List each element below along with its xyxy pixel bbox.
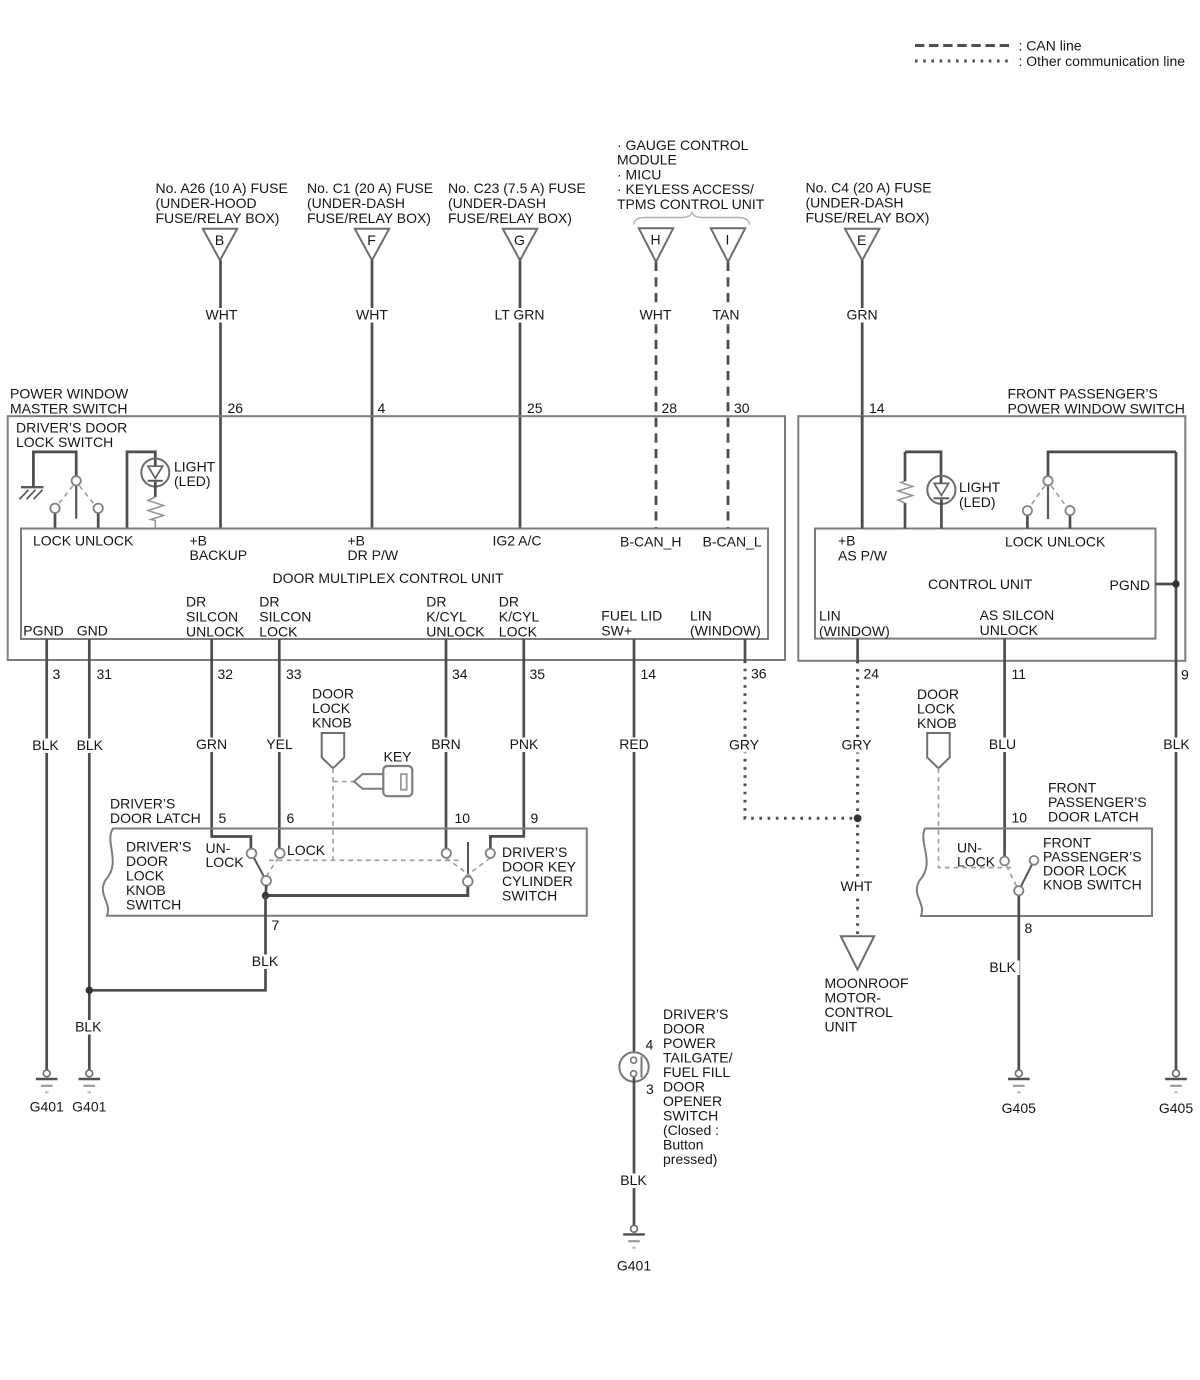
driver's door lock switch LOCK contact — [50, 504, 59, 529]
svg-text:DR: DR — [259, 594, 279, 610]
label BLK (passenger pin 8) — [986, 961, 1020, 976]
svg-text:BLK: BLK — [32, 737, 59, 753]
svg-text:UNLOCK: UNLOCK — [980, 622, 1039, 638]
driver's door latch box — [103, 829, 587, 916]
svg-text:: CAN line: : CAN line — [1019, 38, 1082, 54]
svg-text:G401: G401 — [72, 1099, 106, 1115]
resistor branch (passenger) — [898, 452, 913, 529]
svg-text:BRN: BRN — [431, 736, 461, 752]
LED bridge wire (passenger) — [905, 452, 941, 484]
connector E — [845, 229, 879, 260]
ground G401 (pin 31) — [72, 1070, 106, 1115]
svg-text:KNOB: KNOB — [312, 715, 352, 731]
svg-text:I: I — [726, 231, 730, 247]
label PNK (pin 35) — [507, 738, 542, 753]
svg-text:K/CYL: K/CYL — [499, 609, 540, 625]
wire GRY pin 36 stub — [744, 639, 747, 661]
label BLK (pin 31) — [73, 739, 107, 754]
svg-text:B-CAN_H: B-CAN_H — [620, 534, 681, 550]
svg-text:SILCON: SILCON — [259, 609, 311, 625]
svg-text:GRY: GRY — [841, 737, 872, 753]
front passenger's door latch box — [917, 829, 1152, 917]
legend other-communication line sample — [915, 60, 1014, 63]
svg-text:30: 30 — [734, 400, 750, 416]
svg-text:26: 26 — [228, 400, 244, 416]
wire GRY pin 24 stub — [856, 639, 859, 661]
svg-text:(LED): (LED) — [174, 473, 211, 489]
svg-text:8: 8 — [1025, 920, 1033, 936]
control unit box — [815, 529, 1156, 639]
svg-text:6: 6 — [287, 810, 295, 826]
label GRN (pin 14 wire) — [844, 308, 881, 323]
svg-text:LOCK: LOCK — [287, 842, 326, 858]
connector F — [355, 229, 389, 260]
node GND junction — [86, 987, 93, 994]
svg-text:F: F — [367, 232, 376, 248]
driver's door lock switch blade — [75, 485, 77, 519]
knob linkage dashed (passenger) — [939, 768, 1013, 867]
svg-text:DR: DR — [186, 594, 206, 610]
passenger knob switch common contact — [1014, 886, 1023, 895]
label BLK (pin 7 wire) — [248, 955, 282, 970]
wire WHT from fuse A26 to pin 26 — [219, 260, 222, 528]
svg-text:GRY: GRY — [729, 737, 760, 753]
brace over connectors H and I — [634, 213, 750, 225]
svg-text:AS SILCON: AS SILCON — [980, 607, 1055, 623]
wire BLK pin 31 to G401 — [88, 639, 91, 1070]
svg-text:BLK: BLK — [620, 1172, 647, 1188]
wire BLK latch pin 7 — [89, 896, 265, 991]
svg-text:7: 7 — [272, 917, 280, 933]
svg-text:LIN: LIN — [690, 608, 712, 624]
node PGND junction — [1172, 580, 1179, 587]
passenger lock switch pivot — [1043, 476, 1052, 485]
svg-text:(WINDOW): (WINDOW) — [819, 623, 890, 639]
svg-text:POWER WINDOW SWITCH: POWER WINDOW SWITCH — [1008, 401, 1185, 417]
svg-text:LOCK: LOCK — [259, 624, 298, 640]
svg-text:K/CYL: K/CYL — [426, 609, 467, 625]
svg-text:RED: RED — [619, 736, 649, 752]
wire LT GRN from fuse C23 to pin 25 — [519, 260, 522, 528]
svg-text:DR P/W: DR P/W — [348, 547, 399, 563]
svg-text:PGND: PGND — [23, 623, 63, 639]
driver's door lock switch earth — [20, 487, 44, 499]
svg-text:PGND: PGND — [1110, 577, 1150, 593]
wire RED pin 14 to opener switch — [633, 639, 636, 1056]
front passenger power window switch box — [798, 416, 1185, 661]
fuel fill door opener switch symbol — [619, 1052, 648, 1081]
label BLK (pin 3) — [29, 739, 63, 754]
svg-text:11: 11 — [1012, 666, 1027, 682]
svg-text:24: 24 — [864, 666, 880, 682]
svg-text:KEY: KEY — [384, 749, 413, 765]
wire WHT from fuse C1 to pin 4 — [371, 260, 374, 528]
door lock knob symbol (driver) — [322, 733, 345, 768]
svg-text:KNOB: KNOB — [917, 715, 957, 731]
svg-text:3: 3 — [646, 1081, 654, 1097]
svg-text:G: G — [514, 232, 525, 248]
svg-text:4: 4 — [378, 400, 386, 416]
svg-text:PNK: PNK — [510, 736, 539, 752]
LED lamp (passenger) — [927, 476, 955, 504]
svg-text:UNLOCK: UNLOCK — [426, 624, 485, 640]
svg-text:BLK: BLK — [1163, 736, 1190, 752]
connector H — [639, 228, 673, 261]
svg-text:32: 32 — [218, 666, 234, 682]
door lock knob symbol (passenger) — [927, 733, 950, 768]
svg-text:No. A26 (10 A) FUSE: No. A26 (10 A) FUSE — [156, 180, 288, 196]
wire LED to box (passenger) — [940, 500, 943, 529]
wire passenger common to pin 8 — [1017, 895, 1020, 1070]
svg-text:AS P/W: AS P/W — [838, 548, 888, 564]
passenger knob switch dashed throw — [1007, 866, 1017, 886]
wire pin 9 / PGND vertical — [1175, 452, 1178, 1070]
svg-text:BLK: BLK — [75, 1019, 102, 1035]
svg-text:· KEYLESS ACCESS/: · KEYLESS ACCESS/ — [617, 181, 754, 197]
svg-text:G401: G401 — [617, 1258, 651, 1274]
svg-text:· MICU: · MICU — [617, 166, 661, 182]
svg-text:: Other communication line: : Other communication line — [1019, 53, 1186, 69]
svg-text:(UNDER-DASH: (UNDER-DASH — [307, 195, 405, 211]
svg-text:DOOR MULTIPLEX CONTROL UNIT: DOOR MULTIPLEX CONTROL UNIT — [273, 570, 504, 586]
wire BLK pin 3 to G401 — [45, 639, 48, 1070]
label BLU (pin 11) — [987, 738, 1019, 753]
ground G405 (pin 9) — [1159, 1070, 1193, 1116]
svg-text:FUSE/RELAY BOX): FUSE/RELAY BOX) — [307, 210, 431, 226]
passenger lock switch dashed throws — [1030, 486, 1066, 507]
ground G401 (opener switch) — [617, 1225, 651, 1273]
svg-text:(LED): (LED) — [959, 494, 996, 510]
wire +B AS P/W pin 14 — [861, 416, 864, 528]
key cylinder LOCK contact — [486, 849, 495, 858]
svg-text:10: 10 — [1012, 810, 1028, 826]
label LT GRN (pin 25 wire) — [491, 308, 548, 323]
wire key cylinder common to node — [266, 886, 468, 896]
LED lamp (driver) — [141, 459, 169, 487]
LED branch wire (driver) — [127, 452, 155, 529]
svg-text:BLK: BLK — [252, 953, 279, 969]
svg-text:B-CAN_L: B-CAN_L — [703, 534, 762, 550]
svg-text:LIGHT: LIGHT — [959, 479, 1001, 495]
passenger LOCK contact — [1023, 506, 1032, 529]
passenger lock switch wire — [1048, 452, 1176, 476]
wire BRN pin 34 to latch pin 10 — [445, 639, 448, 849]
svg-text:UNLOCK: UNLOCK — [186, 624, 245, 640]
key cylinder common contact — [463, 877, 473, 887]
svg-text:35: 35 — [530, 666, 546, 682]
svg-text:34: 34 — [452, 666, 468, 682]
svg-text:pressed): pressed) — [663, 1151, 717, 1167]
svg-text:LOCK: LOCK — [957, 854, 996, 870]
svg-text:WHT: WHT — [640, 307, 672, 323]
node GRY junction — [854, 814, 862, 822]
connector B — [203, 229, 237, 260]
svg-text:WHT: WHT — [206, 307, 238, 323]
svg-text:(UNDER-HOOD: (UNDER-HOOD — [156, 195, 257, 211]
svg-text:TAN: TAN — [713, 307, 740, 323]
wire BLU pin 11 to passenger latch — [1003, 639, 1006, 857]
svg-text:FUSE/RELAY BOX): FUSE/RELAY BOX) — [448, 210, 572, 226]
PGND stub wire — [1156, 583, 1177, 586]
driver's door lock switch dashed throws — [58, 486, 95, 505]
label WHT (pin 28 wire) — [637, 308, 675, 323]
label BLK (pin 9) — [1160, 738, 1194, 753]
svg-text:9: 9 — [531, 810, 539, 826]
svg-text:10: 10 — [455, 810, 471, 826]
svg-text:LT GRN: LT GRN — [494, 307, 544, 323]
svg-text:SWITCH: SWITCH — [502, 888, 557, 904]
svg-text:UNIT: UNIT — [825, 1019, 858, 1035]
door multiplex control unit box — [21, 529, 768, 640]
svg-text:H: H — [650, 231, 660, 247]
svg-text:9: 9 — [1181, 667, 1189, 683]
svg-text:E: E — [857, 232, 866, 248]
mechanical linkage dashed (driver) — [269, 859, 462, 861]
label WHT (pin 4 wire) — [353, 308, 391, 323]
svg-text:SWITCH: SWITCH — [126, 897, 181, 913]
svg-text:(UNDER-DASH: (UNDER-DASH — [448, 195, 546, 211]
svg-text:FUSE/RELAY BOX): FUSE/RELAY BOX) — [156, 210, 280, 226]
knob linkage dashed (driver) — [332, 768, 334, 860]
svg-text:TPMS CONTROL UNIT: TPMS CONTROL UNIT — [617, 196, 765, 212]
svg-text:33: 33 — [286, 666, 302, 682]
svg-text:MASTER SWITCH: MASTER SWITCH — [10, 401, 127, 417]
svg-text:GRN: GRN — [846, 307, 877, 323]
svg-text:G401: G401 — [30, 1099, 64, 1115]
svg-text:· GAUGE CONTROL: · GAUGE CONTROL — [617, 137, 749, 153]
key cylinder dashed throw right — [463, 858, 491, 879]
svg-text:BLK: BLK — [989, 959, 1016, 975]
svg-text:G405: G405 — [1002, 1100, 1036, 1116]
wire GRY pin 36 dotted — [745, 661, 858, 819]
connector G — [503, 229, 537, 260]
passenger knob switch open contact — [1030, 856, 1039, 865]
svg-text:DOOR LATCH: DOOR LATCH — [1048, 809, 1139, 825]
svg-text:No. C1 (20 A) FUSE: No. C1 (20 A) FUSE — [307, 180, 433, 196]
svg-text:BLU: BLU — [989, 736, 1016, 752]
svg-text:LOCK UNLOCK: LOCK UNLOCK — [1005, 534, 1106, 550]
ground G405 (passenger latch) — [1002, 1070, 1036, 1116]
svg-text:BLK: BLK — [77, 737, 104, 753]
svg-text:25: 25 — [527, 400, 543, 416]
label WHT (pin 26 wire) — [203, 308, 241, 323]
svg-text:DR: DR — [426, 594, 446, 610]
svg-text:3: 3 — [53, 666, 61, 682]
svg-text:No. C23 (7.5 A) FUSE: No. C23 (7.5 A) FUSE — [448, 180, 586, 196]
svg-text:FRONT PASSENGER’S: FRONT PASSENGER’S — [1008, 386, 1158, 402]
svg-text:MODULE: MODULE — [617, 152, 677, 168]
label BLK (below junction) — [71, 1020, 105, 1035]
svg-text:KNOB SWITCH: KNOB SWITCH — [1043, 877, 1142, 893]
key symbol — [354, 766, 412, 796]
svg-text:LOCK: LOCK — [206, 854, 245, 870]
passenger UNLOCK contact — [1065, 506, 1074, 529]
label BRN (pin 34) — [428, 738, 465, 753]
svg-text:No. C4 (20 A) FUSE: No. C4 (20 A) FUSE — [806, 180, 932, 196]
svg-text:(UNDER-DASH: (UNDER-DASH — [806, 195, 904, 211]
moonroof connector triangle — [841, 936, 874, 969]
svg-text:14: 14 — [641, 666, 657, 682]
knob switch dashed throw (driver) — [266, 859, 277, 877]
svg-text:FUEL LID: FUEL LID — [601, 608, 662, 624]
svg-text:BACKUP: BACKUP — [190, 547, 248, 563]
CAN wire TAN to pin 30 — [727, 262, 730, 529]
svg-text:B: B — [215, 232, 224, 248]
wire YEL pin 33 to latch pin 6 — [278, 639, 281, 849]
passenger lock switch blade — [1047, 485, 1049, 519]
key cylinder UNLOCK contact — [442, 849, 451, 858]
label RED (pin 14) — [617, 738, 652, 753]
svg-text:POWER WINDOW: POWER WINDOW — [10, 386, 129, 402]
label TAN (pin 30 wire) — [709, 308, 744, 323]
svg-text:YEL: YEL — [266, 736, 293, 752]
svg-text:31: 31 — [97, 666, 113, 682]
passenger knob switch blade — [1019, 860, 1034, 890]
svg-text:5: 5 — [219, 810, 227, 826]
svg-text:FUSE/RELAY BOX): FUSE/RELAY BOX) — [806, 210, 930, 226]
svg-text:36: 36 — [751, 666, 767, 682]
wire GRY pin 24 dotted to moonroof — [856, 661, 859, 936]
passenger knob switch UNLOCK contact — [1000, 857, 1009, 866]
svg-text:GND: GND — [77, 623, 108, 639]
label WHT (moonroof wire) — [838, 880, 876, 895]
CAN wire WHT to pin 28 — [655, 262, 658, 529]
svg-text:SILCON: SILCON — [186, 609, 238, 625]
knob switch UNLOCK contact (driver) — [247, 849, 257, 859]
svg-text:4: 4 — [646, 1037, 654, 1053]
knob switch common contact (driver) — [261, 876, 271, 886]
svg-text:IG2 A/C: IG2 A/C — [493, 533, 542, 549]
wire GRN from fuse C4 to pin 14 — [861, 260, 864, 528]
wire BLK opener switch to G401 — [633, 1078, 636, 1226]
label GRY (pin 24) — [839, 738, 875, 753]
svg-text:LOCK: LOCK — [499, 624, 538, 640]
knob switch blade (driver) — [252, 853, 267, 880]
svg-text:GRN: GRN — [196, 736, 227, 752]
svg-text:WHT: WHT — [356, 307, 388, 323]
label GRN (pin 32) — [193, 738, 230, 753]
power window master switch box — [8, 416, 785, 660]
svg-text:LIN: LIN — [819, 608, 841, 624]
wire GRN pin 32 to latch pin 5 — [212, 639, 251, 849]
svg-text:28: 28 — [662, 400, 678, 416]
label BLK (opener switch) — [617, 1174, 651, 1189]
svg-text:LOCK SWITCH: LOCK SWITCH — [16, 434, 113, 450]
wire PNK pin 35 to latch pin 9 — [490, 639, 523, 849]
ground G401 (pin 3) — [30, 1070, 64, 1115]
driver's door lock switch UNLOCK contact — [94, 504, 103, 529]
key linkage dashed — [333, 781, 354, 783]
svg-text:14: 14 — [869, 400, 885, 416]
connector I — [711, 228, 745, 261]
svg-text:+B: +B — [838, 533, 856, 549]
resistor below LED (driver) — [148, 482, 164, 529]
svg-text:G405: G405 — [1159, 1100, 1193, 1116]
label GRY (pin 36) — [726, 738, 762, 753]
label YEL (pin 33) — [263, 738, 297, 753]
svg-text:WHT: WHT — [841, 878, 873, 894]
key cylinder blade — [467, 842, 469, 877]
svg-text:DOOR LATCH: DOOR LATCH — [110, 810, 201, 826]
driver's door lock switch wire — [33, 452, 76, 487]
node latch pin 7 junction — [262, 892, 269, 899]
svg-text:(WINDOW): (WINDOW) — [690, 623, 761, 639]
wire knob switch common to node — [264, 886, 267, 896]
svg-text:DR: DR — [499, 594, 519, 610]
key cylinder dashed throw left — [446, 858, 472, 878]
svg-text:LOCK UNLOCK: LOCK UNLOCK — [33, 533, 134, 549]
svg-text:CONTROL UNIT: CONTROL UNIT — [928, 576, 1033, 592]
svg-text:SW+: SW+ — [601, 623, 632, 639]
knob switch LOCK contact (driver) — [275, 848, 285, 858]
driver's door lock switch pivot — [72, 476, 81, 485]
legend CAN line sample — [915, 44, 1014, 47]
